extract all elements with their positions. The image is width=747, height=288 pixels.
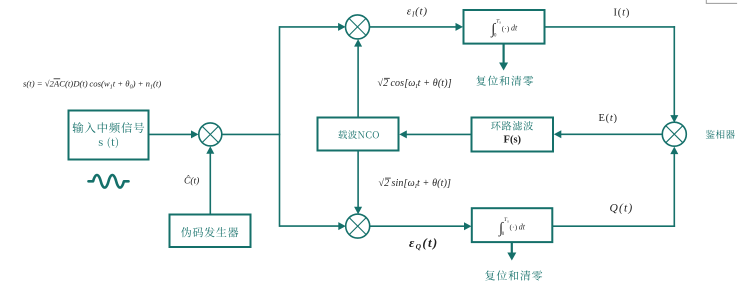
wire PN->M1 xyxy=(209,152,211,215)
wire F(s)->NCO xyxy=(406,133,472,135)
wire NCO->M3 sin xyxy=(357,151,359,209)
svg-text:εQ(t): εQ(t) xyxy=(409,235,439,251)
svg-text:I(t): I(t) xyxy=(614,7,631,18)
block: PN code generator xyxy=(170,215,251,248)
sine wave symbol xyxy=(89,175,129,188)
wire I(t) xyxy=(544,26,675,28)
svg-text:Q(t): Q(t) xyxy=(610,202,634,214)
label reset-and-clear 2 xyxy=(485,270,542,280)
wire M3->INT2 xyxy=(370,225,466,227)
block: integrator INT1 xyxy=(464,10,545,44)
wire top branch xyxy=(280,26,340,28)
block: carrier NCO xyxy=(318,118,399,151)
svg-text:√2 sin[ωIt + θ(t)]: √2 sin[ωIt + θ(t)] xyxy=(379,178,452,190)
wire E(t) xyxy=(560,133,662,135)
reset arrow 1 xyxy=(503,44,505,64)
svg-text:εI(t): εI(t) xyxy=(407,6,428,19)
multiplier M3 xyxy=(346,214,370,238)
wire bottom branch xyxy=(280,225,340,227)
svg-text:dt: dt xyxy=(511,24,518,33)
svg-text:Ĉ(t): Ĉ(t) xyxy=(184,175,199,187)
block: loop filter F(s) xyxy=(472,118,554,152)
wire M1->junction xyxy=(222,133,280,135)
wire input->M1 xyxy=(149,133,193,135)
svg-text:(·): (·) xyxy=(502,24,510,33)
svg-text:dt: dt xyxy=(519,223,526,232)
wire M2->INT1 xyxy=(369,26,456,28)
multiplier M1 xyxy=(199,123,222,146)
wire NCO->M2 cos xyxy=(357,45,359,118)
multiplier M2 xyxy=(346,15,370,39)
reset arrow 2 xyxy=(511,242,513,253)
gray corner artifact xyxy=(706,0,737,3)
svg-text:√2 cos[ωIt + θ(t)]: √2 cos[ωIt + θ(t)] xyxy=(378,78,452,90)
multiplier M4 phase detector xyxy=(662,122,686,146)
svg-text:E(t): E(t) xyxy=(599,113,618,124)
svg-text:(·): (·) xyxy=(510,223,518,232)
trunk vertical wire xyxy=(279,26,281,227)
svg-text:F(s): F(s) xyxy=(504,134,522,145)
label reset-and-clear 1 xyxy=(476,76,533,86)
block: input IF signal box xyxy=(69,111,149,160)
wire Q(t) xyxy=(552,225,675,227)
label phase-detector xyxy=(706,130,735,139)
block: integrator INT2 xyxy=(472,208,553,242)
